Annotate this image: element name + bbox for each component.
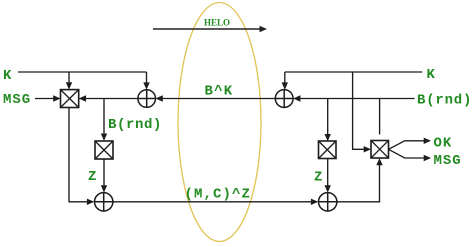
- arrowhead into U7 bottom: [376, 158, 382, 165]
- wire box U7 output to OK: [389, 141, 425, 150]
- arrowhead into U3 top: [101, 134, 107, 141]
- box U7 (verify/decrypt): [371, 141, 389, 159]
- svg-text:MSG: MSG: [3, 92, 31, 108]
- XOR circle U8 (right bottom): [319, 193, 337, 211]
- svg-text:OK: OK: [434, 136, 453, 152]
- wire K left drop to XOR circle U2: [146, 72, 148, 84]
- wire MSG into box U1: [35, 98, 55, 100]
- arrowhead into U4 left: [87, 199, 94, 205]
- arrowhead B^K into U2 right: [156, 95, 163, 101]
- box U6 (B to Z right): [319, 141, 337, 159]
- wire K left horizontal: [18, 71, 147, 73]
- wire K right horizontal: [285, 71, 423, 73]
- wire branch down to box U7 top: [379, 99, 381, 135]
- XOR circle U5 (right top): [275, 90, 293, 108]
- svg-text:K: K: [427, 67, 436, 83]
- wire box U3 output down to XOR circle U4: [103, 159, 105, 187]
- arrowhead to OK: [424, 138, 431, 144]
- arrowhead to MSG: [424, 155, 431, 161]
- arrowhead into U1 right: [79, 95, 86, 101]
- arrowhead into U5 top: [282, 82, 288, 89]
- svg-text:B(rnd): B(rnd): [417, 93, 472, 109]
- wire box U6 output down to XOR circle U8: [327, 159, 329, 188]
- box U3 (B to Z left): [95, 141, 113, 159]
- svg-text:HELO: HELO: [204, 18, 230, 28]
- wire branch down to box U3: [103, 99, 105, 136]
- arrowhead into U8 top: [325, 185, 331, 192]
- svg-text:K: K: [3, 68, 12, 84]
- svg-text:B(rnd): B(rnd): [108, 117, 162, 133]
- arrowhead into U8 left: [311, 199, 318, 205]
- wire K right drop to XOR circle U5: [284, 72, 286, 84]
- wire K right branch to box U7 left: [353, 72, 366, 149]
- arrowhead into U7 left: [364, 146, 371, 152]
- wire B(rnd) right horizontal: [300, 98, 415, 100]
- arrowhead MSG into U1 left: [53, 95, 60, 101]
- wire box U1 output down and right to XOR circle U4: [69, 108, 89, 202]
- svg-text:(M,C)^Z: (M,C)^Z: [185, 187, 252, 203]
- channel ellipse: [178, 3, 261, 242]
- arrowhead into U6 top: [325, 134, 331, 141]
- box U1 (MSG combine): [61, 90, 79, 108]
- wire B^K channel line: [162, 98, 276, 100]
- arrowhead into U4 top: [101, 185, 107, 192]
- wire XOR circle U2 to box U1: [85, 98, 139, 100]
- wire XOR circle U8 to box U7: [337, 164, 379, 202]
- svg-text:Z: Z: [314, 170, 323, 186]
- XOR circle U2 (left top): [138, 90, 156, 108]
- wire branch down to box U6: [327, 99, 329, 136]
- wire (M,C)^Z bottom channel line: [113, 201, 312, 203]
- arrowhead into U1 top: [66, 82, 72, 89]
- svg-text:Z: Z: [88, 169, 97, 185]
- svg-text:MSG: MSG: [434, 153, 462, 169]
- wire box U7 output to MSG: [389, 149, 425, 158]
- arrowhead B(rnd) into U5 right: [293, 95, 300, 101]
- svg-text:B^K: B^K: [205, 84, 234, 100]
- wire K branch drop to box U1: [68, 72, 70, 84]
- wire HELO arrow: [153, 26, 267, 32]
- arrowhead into U2 top: [143, 82, 149, 89]
- XOR circle U4 (left bottom): [95, 193, 113, 211]
